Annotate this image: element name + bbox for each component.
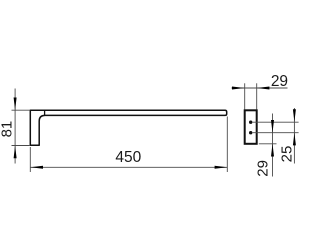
wall plate end-view rectangle bbox=[245, 110, 257, 144]
dimension line 25 bbox=[293, 108, 295, 164]
svg-text:450: 450 bbox=[115, 149, 141, 166]
svg-text:29: 29 bbox=[271, 73, 288, 90]
arrowhead 29-right lower (points up) bbox=[271, 144, 274, 157]
hole extension line upper bbox=[253, 121, 299, 123]
arrowhead 29-top right (points left) bbox=[257, 87, 270, 90]
extension line 29-top left bbox=[244, 83, 246, 109]
screw hole lower bbox=[249, 131, 252, 134]
extension line 29-top right bbox=[256, 83, 258, 109]
arrowhead 81 bottom bbox=[14, 146, 17, 159]
arrowhead 450 right bbox=[215, 166, 228, 169]
arrowhead 29-top left (points right) bbox=[232, 87, 245, 90]
arrowhead 25 upper (points down) bbox=[293, 109, 296, 122]
towel bar side-view profile outline bbox=[30, 110, 226, 145]
dimension line 29-right bbox=[272, 114, 274, 177]
arrowhead 450 left bbox=[30, 166, 43, 169]
dimension line 450 bbox=[30, 166, 227, 168]
extension line 81 bottom bbox=[12, 145, 30, 147]
arrowhead 29-right upper (points down) bbox=[271, 120, 274, 133]
extension line 450 right bbox=[226, 117, 228, 173]
dimension line 29-top with tails bbox=[232, 87, 288, 89]
bend tangent tick on profile bbox=[44, 110, 46, 115]
screw hole upper bbox=[249, 121, 252, 124]
hole extension line lower bbox=[253, 132, 299, 134]
plate bottom extension line bbox=[259, 143, 277, 145]
extension line 81 top bbox=[12, 109, 31, 111]
dimension line 81 bbox=[14, 89, 16, 164]
svg-text:29: 29 bbox=[255, 160, 272, 177]
arrowhead 81 top bbox=[14, 98, 17, 111]
svg-text:81: 81 bbox=[0, 121, 15, 138]
extension line 450 left bbox=[29, 147, 31, 172]
svg-text:25: 25 bbox=[278, 146, 295, 163]
arrowhead 25 lower (points up) bbox=[293, 133, 296, 146]
